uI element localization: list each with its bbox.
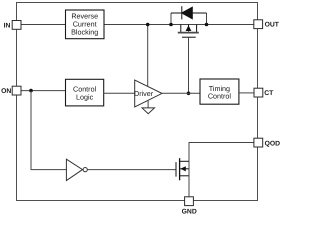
node junction gate/driver <box>187 92 191 96</box>
wire Q1 gate to driver output <box>188 37 190 93</box>
node junction ON branch <box>29 89 33 93</box>
svg-text:Logic: Logic <box>76 93 94 102</box>
wire Control Logic to Driver <box>104 92 135 94</box>
node junction diode right <box>205 23 209 27</box>
wire Driver output to Timing Control <box>162 92 200 94</box>
wire Q2 source to GND pin <box>188 161 190 197</box>
svg-text:IN: IN <box>4 22 11 29</box>
pin ON <box>1 86 21 95</box>
inverter U2 <box>66 159 87 180</box>
transistor Q2 QOD pulldown FET <box>176 158 189 180</box>
block Timing Control <box>200 79 239 104</box>
wire diode right riser <box>206 13 208 25</box>
svg-text:Driver: Driver <box>134 89 154 98</box>
transistor Q1 pass FET <box>178 25 199 38</box>
svg-text:Blocking: Blocking <box>71 28 98 37</box>
body diode D1 <box>171 6 207 19</box>
pin IN <box>4 21 21 30</box>
IC package outline <box>17 3 258 201</box>
pin GND <box>182 197 197 216</box>
wire QOD pin to Q2 drain <box>189 143 254 162</box>
node junction diode left <box>169 23 173 27</box>
op-amp Driver <box>134 80 162 107</box>
node junction on VIN rail at driver feed <box>146 23 150 27</box>
wire driver ground stub <box>147 100 149 108</box>
svg-text:CT: CT <box>264 90 274 97</box>
wire ON branch down to inverter <box>31 91 66 170</box>
svg-text:QOD: QOD <box>265 140 280 147</box>
svg-text:ON: ON <box>1 88 11 95</box>
wire driver supply feed <box>147 25 149 87</box>
block Reverse Current Blocking <box>66 10 105 39</box>
wire diode left riser <box>170 13 172 25</box>
wire inverter output to Q2 gate <box>87 169 175 171</box>
wire ON pin to Control Logic <box>20 90 65 92</box>
pin OUT <box>254 20 280 29</box>
block Control Logic <box>66 79 104 106</box>
svg-text:Control: Control <box>208 91 232 100</box>
pin QOD <box>254 138 280 147</box>
ground <box>142 108 155 114</box>
wire IN pin to Reverse Current Blocking <box>20 24 65 26</box>
svg-text:GND: GND <box>182 209 197 216</box>
wire Reverse Current Blocking to OUT pin <box>104 24 254 26</box>
pin CT <box>254 88 274 97</box>
wire Timing Control to CT pin <box>239 92 254 94</box>
svg-text:OUT: OUT <box>265 21 280 28</box>
